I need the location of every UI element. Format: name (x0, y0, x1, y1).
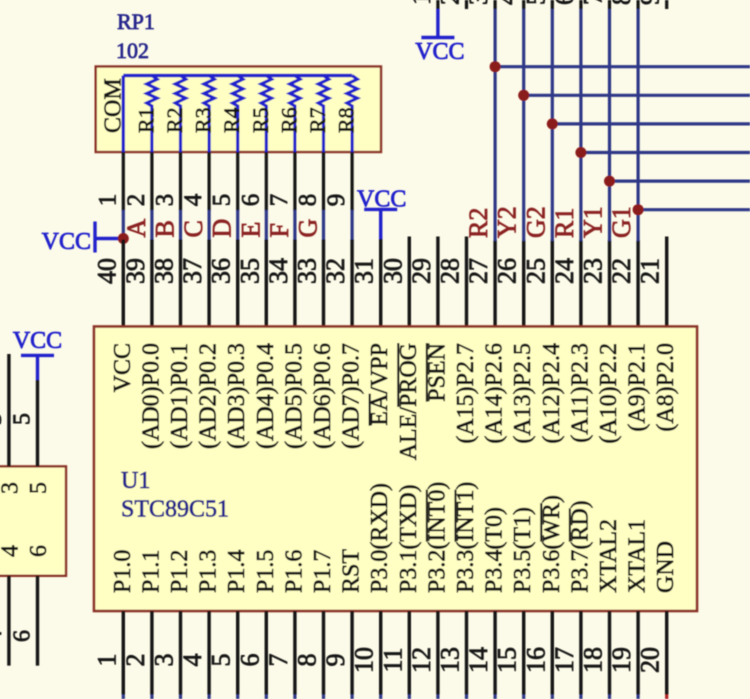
RP1 pin 6 wire (265, 152, 268, 211)
wire tail pin 1 (122, 695, 125, 699)
svg-text:9: 9 (636, 0, 665, 5)
U1 pin name (A10)P2.2 (pin 23) (596, 343, 622, 444)
svg-text:(AD5)P0.5: (AD5)P0.5 (281, 343, 307, 449)
wire tail pin 8 (322, 695, 325, 699)
IC U1 body (94, 327, 697, 612)
power symbol VCC (U1 pin 31 EA/VPP) (357, 187, 406, 240)
svg-text:3: 3 (464, 0, 493, 5)
U1 pin 36 (236, 240, 239, 328)
U1 pin name P3.5(T1) (pin 15) (510, 507, 536, 593)
U1 pin name (A14)P2.6 (pin 27) (482, 343, 508, 444)
svg-text:(AD3)P0.3: (AD3)P0.3 (224, 343, 250, 449)
U1 pin name XTAL2 (pin 18) (596, 519, 622, 593)
U1 pin 9 (350, 611, 353, 695)
svg-text:B: B (151, 220, 180, 237)
svg-text:27: 27 (464, 258, 493, 284)
RP1 pin 3 wire (179, 152, 182, 211)
svg-text:2: 2 (121, 654, 150, 667)
svg-text:P1.0: P1.0 (110, 550, 136, 593)
RP1 COM lead (122, 76, 125, 154)
svg-text:(AD2)P0.2: (AD2)P0.2 (196, 343, 222, 449)
U1 pin name EA/VPP (pin 31) (367, 343, 393, 426)
svg-text:7: 7 (264, 654, 293, 667)
svg-text:RP1: RP1 (117, 9, 155, 34)
RP1 pin 2 wire (150, 152, 153, 211)
U1 pin name P3.4(T0) (pin 14) (482, 507, 508, 593)
U1 pin 20 (665, 611, 668, 695)
svg-text:RST: RST (339, 549, 365, 593)
RP1 pin 1 wire (122, 152, 125, 211)
svg-text:G2: G2 (521, 206, 550, 238)
U1 pin name RST (pin 9) (339, 549, 365, 593)
wire net G1 vertical (636, 9, 639, 241)
wire net G1 horizontal (638, 208, 750, 211)
wire segment to U1 pin 34 (293, 210, 296, 240)
svg-text:12: 12 (407, 647, 436, 673)
svg-text:9: 9 (323, 194, 350, 207)
wire net G2 vertical (551, 9, 554, 241)
svg-text:COM: COM (101, 78, 127, 133)
wire segment to U1 pin 38 (179, 210, 182, 240)
RP1 pin 7 wire (293, 152, 296, 211)
RP1 pin 8 wire (322, 152, 325, 211)
svg-text:R6: R6 (276, 107, 301, 133)
power symbol VCC (connector pin 1) (415, 9, 464, 65)
connector pin stub 1 (436, 0, 439, 9)
wire net R1 horizontal (581, 151, 750, 154)
svg-text:R5: R5 (248, 107, 273, 133)
U1 pin 4 (207, 611, 210, 695)
U1 pin name P3.0(RXD) (pin 10) (367, 483, 393, 593)
wire tail pin 6 (265, 695, 268, 699)
wire segment to U1 pin 36 (236, 210, 239, 240)
resistor R5 (261, 76, 271, 154)
wire segment to U1 pin 40 (122, 210, 125, 240)
svg-text:1: 1 (92, 654, 121, 667)
U1 pin name P1.7 (pin 8) (310, 550, 336, 593)
svg-text:10: 10 (350, 647, 379, 673)
svg-text:38: 38 (150, 258, 179, 284)
U1 pin name (AD7)P0.7 (pin 32) (339, 343, 365, 449)
svg-text:23: 23 (579, 258, 608, 284)
wire net G2 horizontal (552, 122, 750, 125)
svg-text:D: D (208, 219, 237, 238)
svg-text:30: 30 (378, 258, 407, 284)
svg-text:P1.2: P1.2 (167, 550, 193, 593)
U1 pin 11 (408, 611, 411, 695)
svg-text:E: E (236, 222, 265, 238)
svg-text:6: 6 (26, 545, 52, 557)
wire tail pin 11 (408, 695, 411, 699)
svg-text:P3.6(WR): P3.6(WR) (539, 495, 565, 593)
wire net Y1 vertical (608, 9, 611, 241)
svg-text:(AD4)P0.4: (AD4)P0.4 (253, 343, 279, 449)
U1 pin 35 (265, 240, 268, 328)
svg-text:R2: R2 (162, 107, 187, 133)
svg-text:A: A (122, 219, 151, 238)
wire net R2 horizontal (495, 65, 750, 68)
wire net Y1 horizontal (610, 180, 750, 183)
svg-text:P1.7: P1.7 (310, 550, 336, 593)
svg-text:R7: R7 (305, 107, 330, 133)
svg-text:3: 3 (150, 654, 179, 667)
svg-text:(AD0)P0.0: (AD0)P0.0 (138, 343, 164, 449)
U1 pin 38 (179, 240, 182, 328)
U1 pin name (AD3)P0.3 (pin 36) (224, 343, 250, 449)
svg-text:4: 4 (493, 0, 522, 5)
U1 pin 40 (122, 240, 125, 328)
svg-text:(A9)P2.1: (A9)P2.1 (625, 343, 651, 432)
svg-text:13: 13 (436, 647, 465, 673)
svg-text:17: 17 (550, 647, 579, 673)
RP1 common bus wire (123, 74, 352, 77)
svg-text:Y2: Y2 (493, 206, 522, 238)
resistor R6 (290, 76, 300, 154)
svg-text:6: 6 (237, 194, 264, 207)
U1 pin name P1.3 (pin 4) (196, 550, 222, 593)
svg-text:XTAL1: XTAL1 (625, 519, 651, 593)
resistor R8 (347, 76, 357, 154)
connector pin stub 5 (551, 0, 554, 9)
svg-text:(A14)P2.6: (A14)P2.6 (482, 343, 508, 444)
svg-text:31: 31 (350, 258, 379, 284)
U1 pin name PSEN (pin 29) (424, 343, 450, 402)
svg-text:16: 16 (521, 647, 550, 673)
U1 pin name P1.0 (pin 1) (110, 550, 136, 593)
svg-text:3: 3 (0, 413, 7, 425)
svg-text:5: 5 (207, 654, 236, 667)
wire tail pin 18 (608, 695, 611, 699)
svg-text:R1: R1 (550, 208, 579, 238)
wire tail pin 14 (494, 695, 497, 699)
connector pin stub 2 (465, 0, 468, 9)
junction dot net R2 (490, 61, 501, 72)
U1 pin name P3.3(INT1) (pin 13) (453, 482, 479, 593)
U1 pin 23 (608, 240, 611, 327)
connector pin stub 3 (494, 0, 497, 9)
svg-text:102: 102 (116, 38, 149, 63)
wire net Y2 vertical (522, 9, 525, 241)
U1 pin 37 (207, 240, 210, 328)
svg-text:4: 4 (178, 654, 207, 667)
svg-text:GND: GND (653, 541, 679, 593)
U1 pin 28 (465, 237, 468, 328)
U1 pin 33 (322, 240, 325, 328)
U1 pin 1 (122, 611, 125, 695)
svg-text:11: 11 (378, 647, 407, 672)
svg-text:R4: R4 (219, 107, 244, 133)
U1 pin name (AD1)P0.1 (pin 38) (167, 343, 193, 449)
U1 pin name GND (pin 20) (653, 541, 679, 593)
wire net R1 vertical (579, 9, 582, 241)
wire tail pin 4 (208, 695, 211, 699)
svg-text:R8: R8 (334, 107, 359, 133)
svg-text:6: 6 (10, 630, 36, 642)
svg-text:F: F (265, 223, 294, 237)
svg-text:P1.3: P1.3 (196, 550, 222, 593)
resistor R1 (147, 76, 157, 154)
junction dot net G1 (633, 204, 644, 215)
U1 pin name (AD5)P0.5 (pin 34) (281, 343, 307, 449)
U1 pin 10 (379, 611, 382, 695)
svg-text:8: 8 (607, 0, 636, 5)
U1 pin name P3.1(TXD) (pin 11) (396, 484, 422, 593)
svg-text:(AD7)P0.7: (AD7)P0.7 (339, 343, 365, 449)
U1 pin name P3.7(RD) (pin 17) (567, 500, 593, 593)
wire tail pin 17 (579, 695, 582, 699)
wire tail pin 16 (551, 695, 554, 699)
U1 pin 39 (150, 240, 153, 328)
svg-text:EA/VPP: EA/VPP (367, 343, 393, 426)
svg-text:32: 32 (321, 258, 350, 284)
svg-text:1: 1 (94, 194, 121, 207)
svg-text:33: 33 (293, 258, 322, 284)
power symbol VCC (U2) (13, 328, 62, 380)
U1 pin name P3.6(WR) (pin 16) (539, 495, 565, 593)
U1 pin name (A8)P2.0 (pin 21) (653, 343, 679, 432)
U1 pin 15 (522, 611, 525, 695)
U1 pin 26 (522, 240, 525, 327)
svg-text:VCC: VCC (13, 328, 62, 354)
connector pin stub 6 (579, 0, 582, 9)
wire tail pin 20 (665, 695, 668, 699)
svg-text:(A10)P2.2: (A10)P2.2 (596, 343, 622, 444)
U1 pin 30 (408, 237, 411, 328)
svg-text:Y1: Y1 (579, 206, 608, 238)
svg-text:25: 25 (521, 258, 550, 284)
U1 pin name (A11)P2.3 (pin 24) (567, 343, 593, 443)
svg-text:36: 36 (207, 258, 236, 284)
svg-text:P3.4(T0): P3.4(T0) (482, 507, 508, 593)
svg-text:C: C (179, 220, 208, 237)
svg-text:G1: G1 (607, 206, 636, 238)
resistor R3 (204, 76, 214, 154)
svg-text:2: 2 (123, 194, 150, 207)
svg-text:19: 19 (607, 647, 636, 673)
U1 pin name P3.2(INT0) (pin 12) (424, 482, 450, 593)
svg-text:14: 14 (464, 647, 493, 673)
svg-text:VCC: VCC (415, 39, 464, 65)
svg-text:XTAL2: XTAL2 (596, 519, 622, 593)
svg-text:3: 3 (152, 194, 179, 207)
svg-text:21: 21 (636, 258, 665, 284)
svg-text:8: 8 (293, 654, 322, 667)
svg-text:R2: R2 (464, 208, 493, 238)
U1 pin name (AD6)P0.6 (pin 33) (310, 343, 336, 449)
connector pin stub 4 (522, 0, 525, 9)
wire tail pin 7 (293, 695, 296, 699)
svg-text:(A12)P2.4: (A12)P2.4 (539, 343, 565, 444)
svg-text:VCC: VCC (42, 229, 91, 255)
svg-text:P3.1(TXD): P3.1(TXD) (396, 484, 422, 593)
U1 pin 34 (293, 240, 296, 328)
svg-text:U1: U1 (121, 468, 150, 494)
svg-text:35: 35 (235, 258, 264, 284)
wire tail pin 12 (436, 695, 439, 699)
U1 pin 27 (493, 240, 496, 327)
wire tail pin 5 (236, 695, 239, 699)
svg-text:20: 20 (636, 647, 665, 673)
U1 pin 2 (150, 611, 153, 695)
U1 pin 14 (493, 611, 496, 695)
svg-text:4: 4 (0, 630, 7, 642)
U1 pin 7 (293, 611, 296, 695)
connector pin stub 8 (636, 0, 639, 9)
svg-text:29: 29 (407, 258, 436, 284)
svg-text:7: 7 (579, 0, 608, 5)
svg-text:G: G (294, 219, 323, 238)
wire segment to U1 pin 32 (351, 210, 354, 240)
U1 pin 16 (551, 611, 554, 695)
svg-text:7: 7 (266, 194, 293, 207)
svg-text:5: 5 (521, 0, 550, 5)
svg-text:P1.5: P1.5 (253, 550, 279, 593)
svg-text:4: 4 (180, 193, 207, 206)
U2 bottom pin left (7, 576, 10, 666)
resistor pack RP1 body (96, 67, 381, 153)
RP1 pin 4 wire (208, 152, 211, 211)
svg-text:P3.0(RXD): P3.0(RXD) (367, 483, 393, 593)
svg-text:P3.2(INT0): P3.2(INT0) (424, 482, 450, 593)
U1 pin name XTAL1 (pin 19) (625, 519, 651, 593)
wire tail pin 9 (351, 695, 354, 699)
U2 top pin right (36, 380, 39, 466)
svg-text:P1.6: P1.6 (281, 550, 307, 593)
svg-text:6: 6 (235, 654, 264, 667)
U1 pin name P1.5 (pin 6) (253, 550, 279, 593)
svg-text:28: 28 (436, 258, 465, 284)
U1 pin 3 (179, 611, 182, 695)
U1 pin 22 (636, 240, 639, 327)
U2 top pin left (7, 354, 10, 466)
svg-text:3: 3 (0, 482, 23, 494)
svg-text:(A8)P2.0: (A8)P2.0 (653, 343, 679, 432)
wire net Y2 horizontal (524, 94, 750, 97)
svg-text:34: 34 (264, 258, 293, 284)
svg-text:18: 18 (579, 647, 608, 673)
svg-text:1: 1 (407, 0, 436, 5)
resistor R4 (233, 76, 243, 154)
wire tail pin 2 (150, 695, 153, 699)
component U2 body (partial, left edge) (0, 466, 66, 575)
svg-text:P3.5(T1): P3.5(T1) (510, 507, 536, 593)
U1 pin name P1.4 (pin 5) (224, 550, 250, 593)
wire tail pin 13 (465, 695, 468, 699)
U1 pin name ALE/PROG (pin 30) (396, 343, 422, 460)
U1 pin name (AD2)P0.2 (pin 37) (196, 343, 222, 449)
svg-text:40: 40 (92, 258, 121, 284)
svg-text:5: 5 (209, 194, 236, 207)
wire segment to U1 pin 39 (150, 210, 153, 240)
U2 bottom pin right (36, 576, 39, 666)
U1 pin 19 (636, 611, 639, 695)
U1 pin 12 (436, 611, 439, 695)
power symbol VCC (U1 pin 40) (42, 222, 124, 256)
svg-text:(A13)P2.5: (A13)P2.5 (510, 343, 536, 444)
RP1 pin 9 wire (351, 152, 354, 211)
U1 pin name (A13)P2.5 (pin 26) (510, 343, 536, 444)
resistor R2 (175, 76, 185, 154)
U1 pin name (A9)P2.1 (pin 22) (625, 343, 651, 432)
svg-text:R3: R3 (191, 107, 216, 133)
svg-text:39: 39 (121, 258, 150, 284)
svg-text:ALE/PROG: ALE/PROG (396, 343, 422, 460)
U1 pin 13 (465, 611, 468, 695)
connector pin stub 9 (665, 0, 668, 9)
wire tail pin 15 (522, 695, 525, 699)
U1 pin name P1.1 (pin 2) (138, 550, 164, 593)
wire tail pin 19 (636, 695, 639, 699)
U1 pin name P1.2 (pin 3) (167, 550, 193, 593)
U1 pin name (AD0)P0.0 (pin 39) (138, 343, 164, 449)
svg-text:22: 22 (607, 258, 636, 284)
svg-text:9: 9 (321, 654, 350, 667)
connector pin stub 7 (608, 0, 611, 9)
U1 pin 8 (322, 611, 325, 695)
wire tail pin 3 (179, 695, 182, 699)
svg-text:5: 5 (26, 482, 52, 494)
junction dot net G2 (547, 118, 558, 129)
wire tail pin 10 (379, 695, 382, 699)
U1 pin 29 (436, 237, 439, 328)
U1 pin name (A12)P2.4 (pin 25) (539, 343, 565, 444)
U1 pin name P1.6 (pin 7) (281, 550, 307, 593)
U1 pin 25 (551, 240, 554, 327)
svg-text:P3.3(INT1): P3.3(INT1) (453, 482, 479, 593)
RP1 pin 5 wire (236, 152, 239, 211)
U1 pin name (A15)P2.7 (pin 28) (453, 343, 479, 444)
U1 pin 24 (579, 240, 582, 327)
svg-text:15: 15 (493, 647, 522, 673)
wire segment to U1 pin 37 (208, 210, 211, 240)
resistor R7 (318, 76, 328, 154)
U1 pin 21 (665, 237, 668, 328)
svg-text:6: 6 (550, 0, 579, 5)
svg-text:8: 8 (295, 194, 322, 207)
U1 pin 6 (265, 611, 268, 695)
svg-text:(A11)P2.3: (A11)P2.3 (567, 343, 593, 443)
U1 pin 17 (579, 611, 582, 695)
svg-text:37: 37 (178, 258, 207, 284)
wire segment to U1 pin 33 (322, 210, 325, 240)
svg-text:5: 5 (10, 413, 36, 425)
svg-text:24: 24 (550, 258, 579, 284)
svg-text:26: 26 (493, 258, 522, 284)
svg-text:P3.7(RD): P3.7(RD) (567, 500, 593, 593)
svg-text:P1.4: P1.4 (224, 550, 250, 593)
junction dot net Y1 (604, 176, 615, 187)
wire segment to U1 pin 35 (265, 210, 268, 240)
junction dot net R1 (575, 147, 586, 158)
svg-text:(AD1)P0.1: (AD1)P0.1 (167, 343, 193, 449)
U1 pin 32 (350, 240, 353, 328)
U1 pin 5 (236, 611, 239, 695)
U1 pin 18 (608, 611, 611, 695)
svg-text:(AD6)P0.6: (AD6)P0.6 (310, 343, 336, 449)
junction dot net Y2 (518, 90, 529, 101)
wire net R2 vertical (494, 9, 497, 241)
svg-text:VCC: VCC (110, 343, 136, 392)
junction dot on pin 40 net (118, 233, 129, 244)
svg-text:P1.1: P1.1 (138, 550, 164, 593)
U1 pin 31 (379, 239, 382, 328)
U1 pin name (AD4)P0.4 (pin 35) (253, 343, 279, 449)
svg-text:PSEN: PSEN (424, 343, 450, 402)
svg-text:4: 4 (0, 545, 23, 557)
svg-text:2: 2 (436, 0, 465, 5)
svg-text:R1: R1 (133, 107, 158, 133)
U1 pin name VCC (pin 40) (110, 343, 136, 392)
